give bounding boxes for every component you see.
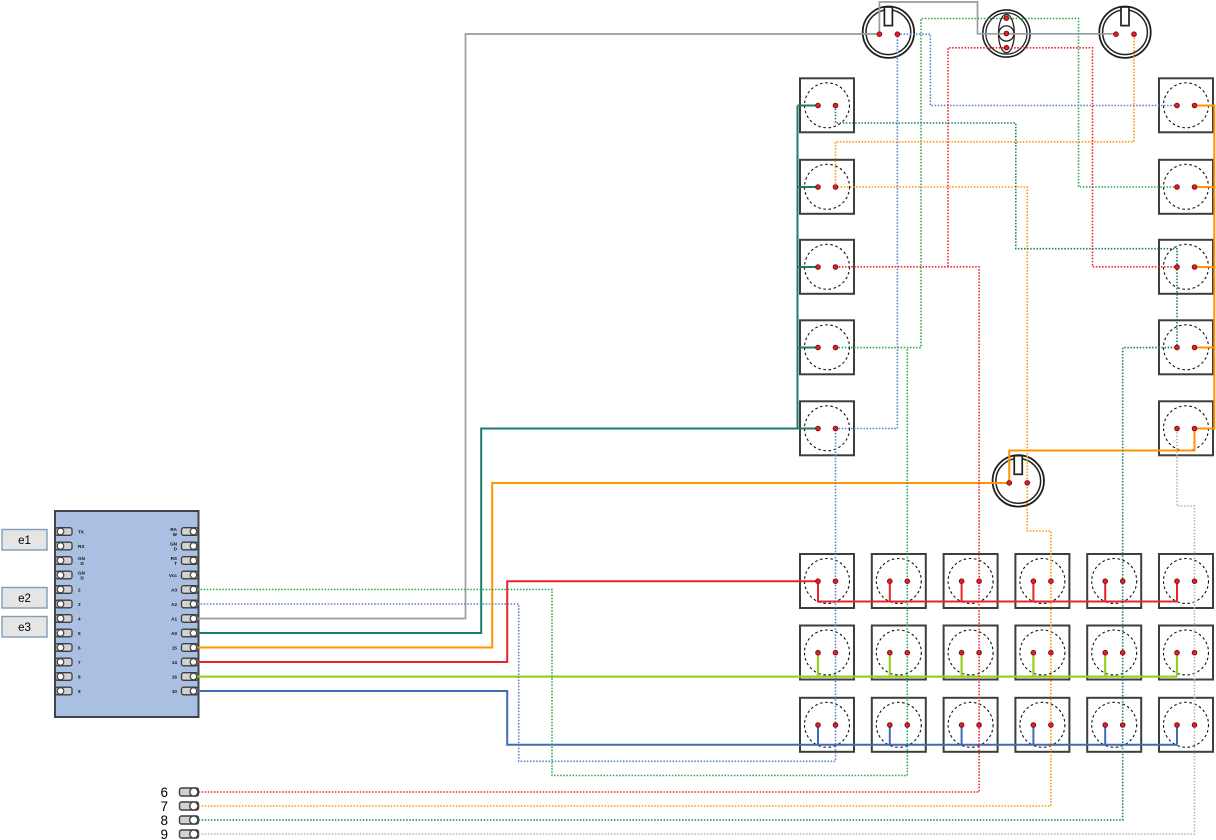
svg-text:2: 2 — [78, 587, 81, 592]
svg-text:3: 3 — [78, 602, 81, 607]
svg-text:5: 5 — [78, 631, 81, 636]
svg-text:7: 7 — [160, 799, 168, 814]
svg-text:A1: A1 — [171, 616, 177, 621]
svg-text:14: 14 — [172, 660, 178, 665]
svg-text:TX: TX — [78, 529, 85, 534]
svg-text:4: 4 — [78, 616, 81, 621]
svg-text:e1: e1 — [18, 535, 31, 547]
svg-text:A0: A0 — [171, 631, 177, 636]
svg-text:A3: A3 — [171, 587, 177, 592]
svg-text:16: 16 — [172, 674, 178, 679]
svg-text:8: 8 — [160, 813, 168, 828]
svg-text:15: 15 — [172, 645, 178, 650]
svg-text:9: 9 — [160, 827, 168, 840]
svg-text:Vcc: Vcc — [169, 573, 178, 578]
svg-text:6: 6 — [78, 645, 81, 650]
svg-text:10: 10 — [172, 689, 178, 694]
svg-text:RX: RX — [78, 544, 85, 549]
svg-text:A2: A2 — [171, 602, 177, 607]
svg-text:T: T — [174, 561, 177, 566]
svg-text:7: 7 — [78, 660, 81, 665]
svg-text:9: 9 — [78, 689, 81, 694]
svg-text:e2: e2 — [18, 593, 31, 605]
svg-text:W: W — [173, 532, 178, 537]
svg-text:6: 6 — [160, 785, 168, 800]
svg-text:e3: e3 — [18, 622, 31, 634]
svg-text:8: 8 — [78, 674, 81, 679]
